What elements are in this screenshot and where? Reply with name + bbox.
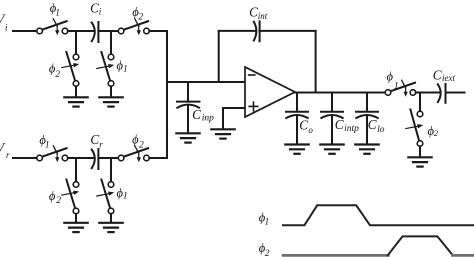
label Ciext [433, 67, 456, 83]
label phi1 of VS4 [117, 186, 128, 201]
svg-text:1: 1 [45, 141, 50, 151]
svg-text:1: 1 [123, 65, 128, 75]
waveform phi2 baseline left [283, 254, 388, 257]
wire VS5 to ground [419, 146, 421, 156]
svg-text:o: o [308, 125, 313, 135]
ground at + input [211, 129, 234, 138]
switch VS3 phi2 (to ground, under node between S3 and Cr) [62, 180, 80, 214]
ground under VS5 [408, 157, 431, 166]
op-amp U1 [245, 67, 295, 117]
capacitor Cintp (integrator parasitic) [321, 93, 343, 144]
ground under VS3 [64, 223, 87, 232]
wire S4 to bus [149, 157, 167, 159]
svg-text:2: 2 [138, 12, 143, 22]
wire VS2 to ground [110, 86, 112, 96]
svg-text:ϕ: ϕ [387, 70, 394, 84]
label phi1 of S3 [39, 133, 49, 151]
svg-text:2: 2 [434, 128, 439, 138]
capacitor Cinp (parasitic input capacitance) [177, 82, 200, 133]
node Vr input label [0, 140, 10, 160]
wire Ci to S2 [98, 30, 118, 32]
label Cinp [192, 107, 214, 124]
label phi2 of VS3 [49, 189, 61, 206]
switch S3 phi1 (bottom input series) [37, 146, 68, 162]
label Clo [368, 117, 385, 135]
wire op-amp output [295, 92, 385, 94]
waveform phi2 baseline right [452, 254, 474, 257]
switch S5 phi1 (output series) [385, 80, 416, 96]
switch S4 phi2 (bottom series to bus) [118, 146, 149, 162]
label Cr [90, 132, 103, 150]
waveform phi2 pulse [388, 236, 453, 255]
wire S5 to Ciext [416, 92, 440, 94]
label phi1 of VS2 [117, 59, 128, 75]
svg-text:C: C [299, 118, 308, 133]
svg-text:i: i [5, 23, 8, 33]
switch S2 phi2 (top series to bus) [118, 19, 149, 35]
capacitor Ci [92, 22, 99, 42]
ground under Cinp [176, 133, 199, 142]
svg-text:C: C [90, 1, 99, 16]
wire op-amp + input [223, 107, 245, 109]
wire VS3 to ground [75, 214, 77, 222]
svg-text:r: r [99, 139, 103, 149]
switch S1 phi1 (top input series) [37, 19, 68, 35]
svg-text:C: C [249, 5, 258, 20]
svg-text:2: 2 [139, 141, 144, 151]
label Co [299, 118, 313, 136]
switch VS5 phi2 (output node to ground) [406, 110, 424, 147]
svg-text:iext: iext [442, 73, 455, 83]
label phi2 of S4 [132, 132, 144, 150]
ground under Clo [355, 145, 378, 154]
svg-text:ϕ: ϕ [49, 189, 56, 203]
wire Vi input [13, 30, 37, 32]
capacitor Ciext (external integrating capacitor) [438, 84, 446, 103]
wire bus to op-amp inverting input [167, 81, 245, 83]
svg-text:2: 2 [265, 249, 270, 257]
switch VS1 phi2 (to ground, under node between S1 and Ci) [62, 52, 80, 86]
switch VS2 phi1 (to ground, under node between Ci and S2) [97, 52, 115, 86]
svg-text:inp: inp [202, 114, 214, 124]
label phi2 of VS1 [49, 62, 60, 81]
wire bus vertical [166, 31, 168, 158]
wire VS4 to ground [110, 214, 112, 222]
svg-text:C: C [433, 67, 442, 82]
wire feedback top right [260, 30, 316, 32]
label phi1 of S1 [50, 1, 60, 19]
capacitor Cint (integrating feedback capacitor) [254, 21, 260, 41]
wire S3 to Cr [68, 157, 94, 159]
label phi2 of S2 [132, 5, 143, 22]
capacitor Cr [92, 149, 99, 169]
wire feedback top left [219, 30, 256, 32]
wire + input to ground [222, 108, 224, 129]
label phi1 of waveform [259, 210, 270, 227]
capacitor Clo (load capacitance) [356, 93, 378, 144]
label phi2 of waveform [259, 241, 270, 257]
node Vi input label [0, 12, 8, 33]
label Cintp [335, 117, 359, 134]
wire junction drop to VS3 [75, 158, 77, 181]
switch VS4 phi1 (to ground, under node between Cr and S4) [97, 180, 115, 214]
label phi1 of S5 [387, 70, 399, 92]
svg-text:int: int [258, 11, 268, 21]
svg-text:2: 2 [55, 70, 60, 80]
svg-text:1: 1 [394, 82, 399, 92]
svg-text:1: 1 [265, 218, 270, 228]
wire S1 to Ci [68, 30, 94, 32]
wire junction drop to VS2 [110, 31, 112, 54]
label phi2 of VS5 [428, 124, 439, 138]
ground under VS1 [64, 97, 87, 106]
svg-text:C: C [90, 132, 99, 147]
svg-text:C: C [192, 107, 201, 122]
waveform phi1 [283, 205, 473, 225]
wire junction drop to VS5 [419, 93, 421, 112]
svg-text:1: 1 [123, 192, 128, 202]
svg-text:lo: lo [377, 125, 385, 135]
svg-text:intp: intp [344, 124, 359, 134]
ground under Cintp [320, 145, 343, 154]
wire S2 to bus [149, 30, 167, 32]
label Ci [90, 1, 102, 17]
ground under Co [285, 145, 308, 154]
wire Ciext output [446, 92, 465, 94]
capacitor Co (op-amp output capacitance) [286, 93, 308, 144]
ground under VS2 [99, 97, 122, 106]
wire Cr to S4 [98, 157, 118, 159]
svg-text:C: C [368, 117, 377, 132]
svg-text:1: 1 [55, 8, 60, 18]
wire feedback right vertical [315, 31, 317, 93]
wire junction drop to VS4 [110, 158, 112, 181]
wire junction drop to VS1 [75, 31, 77, 54]
wire VS1 to ground [75, 86, 77, 96]
ground under VS4 [99, 223, 122, 232]
wire feedback left vertical [218, 31, 220, 82]
svg-text:2: 2 [56, 196, 61, 206]
svg-text:r: r [6, 150, 10, 160]
wire Vr input [13, 157, 37, 159]
svg-text:i: i [99, 7, 102, 17]
label Cint [249, 5, 268, 21]
svg-text:C: C [335, 117, 344, 132]
